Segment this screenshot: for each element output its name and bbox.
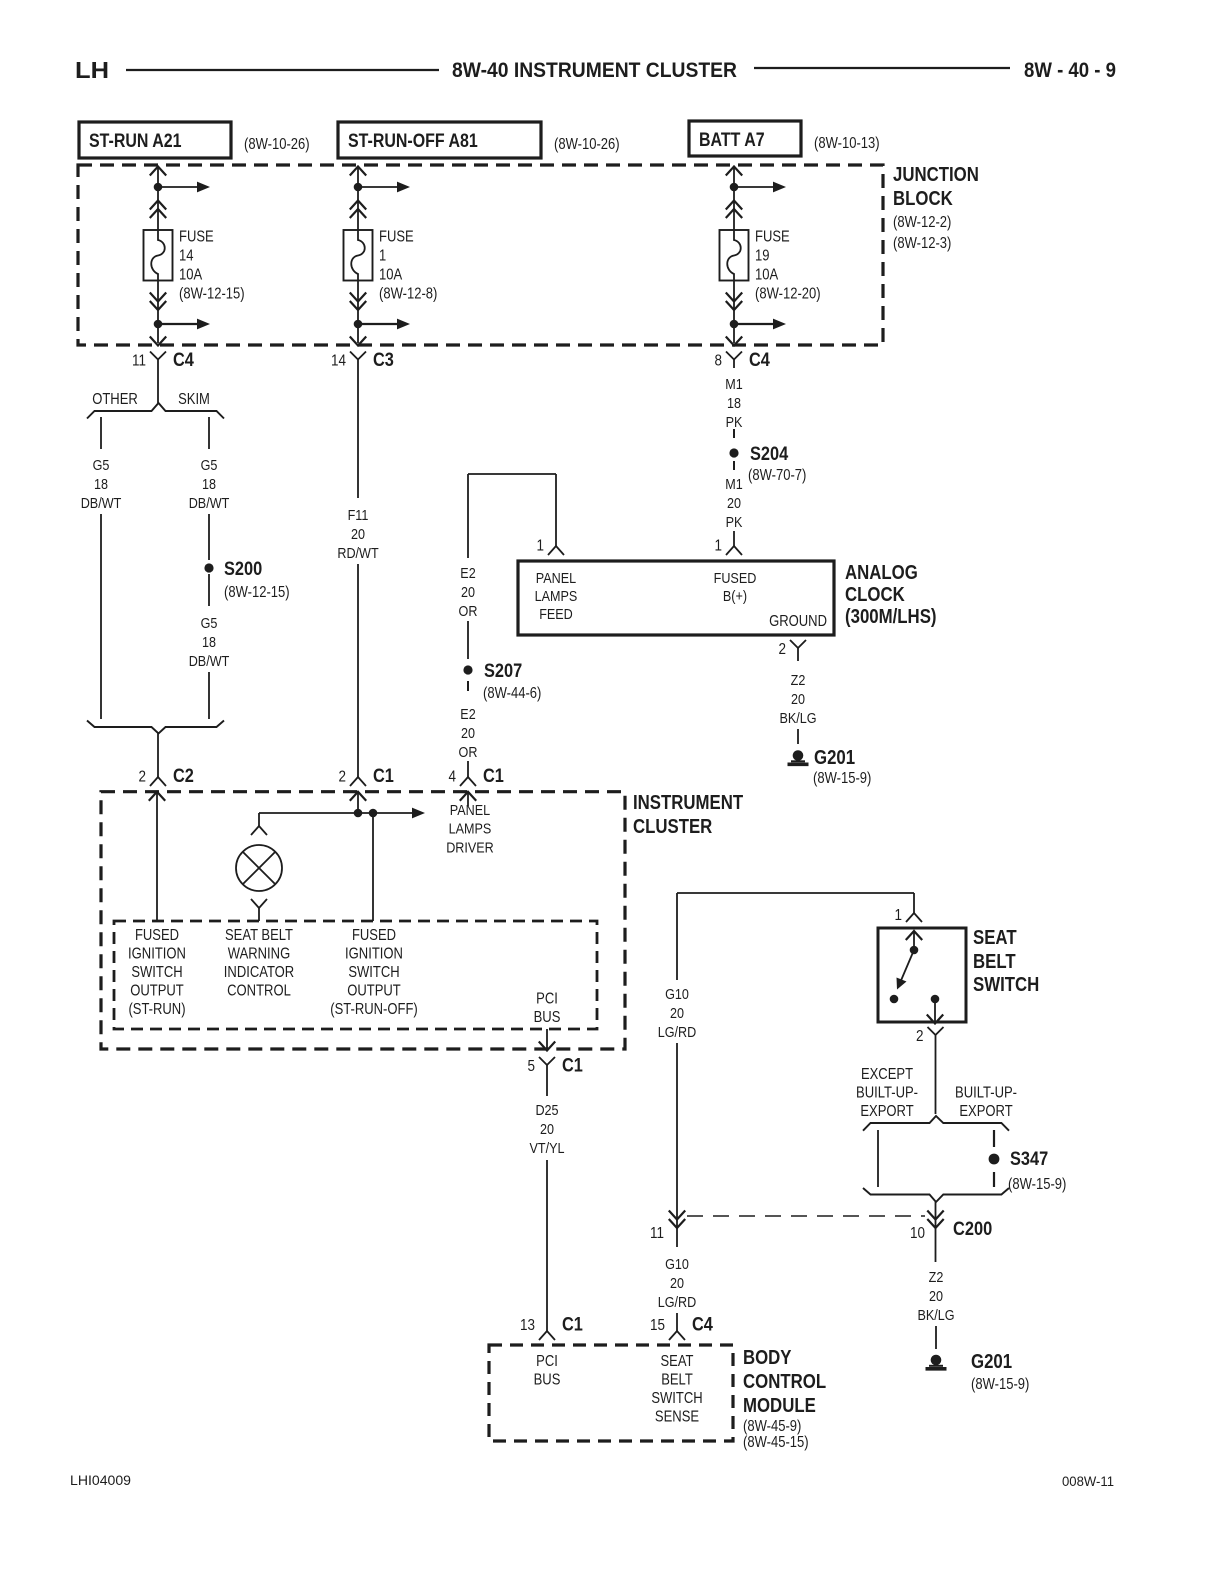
svg-text:DB/WT: DB/WT bbox=[81, 495, 122, 512]
svg-text:BUILT-UP-: BUILT-UP- bbox=[856, 1085, 918, 1102]
svg-text:20: 20 bbox=[461, 584, 475, 601]
svg-text:FEED: FEED bbox=[539, 606, 573, 623]
svg-text:(8W-10-13): (8W-10-13) bbox=[814, 135, 880, 152]
svg-text:C1: C1 bbox=[373, 765, 394, 787]
svg-text:C3: C3 bbox=[373, 349, 394, 371]
svg-text:PANEL: PANEL bbox=[536, 570, 576, 587]
svg-text:(8W-44-6): (8W-44-6) bbox=[483, 685, 541, 702]
svg-text:SWITCH: SWITCH bbox=[131, 964, 182, 981]
svg-text:SEAT: SEAT bbox=[661, 1353, 694, 1370]
svg-text:10A: 10A bbox=[179, 267, 203, 284]
svg-text:VT/YL: VT/YL bbox=[530, 1140, 565, 1157]
svg-text:FUSE: FUSE bbox=[379, 229, 414, 246]
svg-text:BUS: BUS bbox=[534, 1009, 561, 1026]
svg-text:INDICATOR: INDICATOR bbox=[224, 964, 294, 981]
svg-text:2: 2 bbox=[139, 769, 147, 786]
svg-text:FUSE: FUSE bbox=[755, 229, 790, 246]
svg-text:DB/WT: DB/WT bbox=[189, 495, 230, 512]
svg-text:S204: S204 bbox=[750, 443, 788, 465]
svg-text:(8W-10-26): (8W-10-26) bbox=[554, 136, 620, 153]
svg-text:Z2: Z2 bbox=[791, 672, 806, 689]
svg-text:1: 1 bbox=[379, 248, 386, 265]
svg-text:PK: PK bbox=[726, 514, 743, 531]
svg-text:D25: D25 bbox=[535, 1102, 558, 1119]
svg-text:(8W-45-9): (8W-45-9) bbox=[743, 1418, 801, 1435]
svg-text:OUTPUT: OUTPUT bbox=[130, 983, 184, 1000]
svg-text:BELT: BELT bbox=[661, 1372, 693, 1389]
svg-text:CLOCK: CLOCK bbox=[845, 584, 905, 606]
svg-text:G5: G5 bbox=[201, 615, 218, 632]
svg-text:E2: E2 bbox=[460, 565, 475, 582]
svg-text:IGNITION: IGNITION bbox=[128, 946, 186, 963]
svg-text:BLOCK: BLOCK bbox=[893, 188, 953, 210]
svg-text:18: 18 bbox=[202, 634, 216, 651]
svg-text:8W-40 INSTRUMENT CLUSTER: 8W-40 INSTRUMENT CLUSTER bbox=[452, 58, 737, 82]
svg-text:(8W-15-9): (8W-15-9) bbox=[971, 1376, 1029, 1393]
svg-text:FUSED: FUSED bbox=[352, 927, 396, 944]
svg-text:5: 5 bbox=[528, 1058, 536, 1075]
svg-text:BK/LG: BK/LG bbox=[917, 1307, 954, 1324]
svg-text:BODY: BODY bbox=[743, 1347, 792, 1369]
svg-text:SKIM: SKIM bbox=[178, 391, 210, 408]
svg-text:WARNING: WARNING bbox=[228, 946, 290, 963]
svg-text:19: 19 bbox=[755, 248, 770, 265]
svg-text:(8W-15-9): (8W-15-9) bbox=[1008, 1176, 1066, 1193]
svg-text:(8W-12-15): (8W-12-15) bbox=[179, 286, 245, 303]
svg-text:RD/WT: RD/WT bbox=[337, 545, 378, 562]
svg-text:20: 20 bbox=[351, 526, 365, 543]
svg-text:CONTROL: CONTROL bbox=[227, 983, 291, 1000]
svg-text:SWITCH: SWITCH bbox=[651, 1390, 702, 1407]
svg-text:4: 4 bbox=[449, 769, 457, 786]
svg-text:(8W-15-9): (8W-15-9) bbox=[813, 770, 871, 787]
svg-text:(300M/LHS): (300M/LHS) bbox=[845, 606, 937, 628]
svg-text:18: 18 bbox=[94, 476, 108, 493]
svg-text:10A: 10A bbox=[755, 267, 779, 284]
svg-text:(8W-12-20): (8W-12-20) bbox=[755, 286, 821, 303]
svg-text:F11: F11 bbox=[348, 507, 369, 524]
svg-text:(8W-10-26): (8W-10-26) bbox=[244, 136, 310, 153]
svg-text:G5: G5 bbox=[93, 457, 110, 474]
svg-text:Z2: Z2 bbox=[929, 1269, 944, 1286]
svg-text:(8W-12-15): (8W-12-15) bbox=[224, 584, 290, 601]
svg-text:BUS: BUS bbox=[534, 1372, 561, 1389]
svg-text:G10: G10 bbox=[665, 1256, 689, 1273]
svg-text:S347: S347 bbox=[1010, 1148, 1048, 1170]
svg-text:20: 20 bbox=[791, 691, 805, 708]
svg-text:SWITCH: SWITCH bbox=[348, 964, 399, 981]
svg-text:LAMPS: LAMPS bbox=[449, 821, 492, 838]
svg-text:20: 20 bbox=[670, 1275, 684, 1292]
svg-text:ST-RUN A21: ST-RUN A21 bbox=[89, 131, 182, 152]
svg-text:(8W-45-15): (8W-45-15) bbox=[743, 1434, 809, 1451]
svg-text:C4: C4 bbox=[173, 349, 194, 371]
svg-text:G5: G5 bbox=[201, 457, 218, 474]
svg-text:EXCEPT: EXCEPT bbox=[861, 1066, 914, 1083]
svg-text:ST-RUN-OFF A81: ST-RUN-OFF A81 bbox=[348, 131, 478, 152]
svg-text:C1: C1 bbox=[562, 1314, 583, 1336]
svg-text:GROUND: GROUND bbox=[769, 613, 827, 630]
svg-text:13: 13 bbox=[520, 1317, 535, 1334]
svg-text:20: 20 bbox=[461, 725, 475, 742]
svg-text:EXPORT: EXPORT bbox=[860, 1103, 914, 1120]
svg-text:ANALOG: ANALOG bbox=[845, 562, 918, 584]
svg-text:LHI04009: LHI04009 bbox=[70, 1472, 131, 1488]
svg-text:20: 20 bbox=[727, 495, 741, 512]
svg-text:OUTPUT: OUTPUT bbox=[347, 983, 401, 1000]
svg-text:20: 20 bbox=[540, 1121, 554, 1138]
svg-text:1: 1 bbox=[537, 538, 545, 555]
svg-text:15: 15 bbox=[650, 1317, 665, 1334]
svg-text:18: 18 bbox=[727, 395, 741, 412]
svg-text:S207: S207 bbox=[484, 660, 522, 682]
svg-text:FUSED: FUSED bbox=[714, 570, 757, 587]
svg-text:10: 10 bbox=[910, 1225, 925, 1242]
svg-text:S200: S200 bbox=[224, 558, 262, 580]
svg-text:LAMPS: LAMPS bbox=[535, 588, 578, 605]
svg-text:2: 2 bbox=[779, 641, 787, 658]
svg-text:1: 1 bbox=[715, 538, 723, 555]
svg-text:E2: E2 bbox=[460, 706, 475, 723]
svg-text:M1: M1 bbox=[725, 376, 743, 393]
svg-text:EXPORT: EXPORT bbox=[959, 1103, 1013, 1120]
svg-text:PK: PK bbox=[726, 414, 743, 431]
svg-text:SWITCH: SWITCH bbox=[973, 974, 1039, 996]
svg-text:C200: C200 bbox=[953, 1218, 992, 1240]
svg-text:SEAT: SEAT bbox=[973, 927, 1017, 949]
svg-text:10A: 10A bbox=[379, 267, 403, 284]
svg-text:2: 2 bbox=[339, 769, 347, 786]
svg-text:20: 20 bbox=[929, 1288, 943, 1305]
svg-text:G10: G10 bbox=[665, 986, 689, 1003]
svg-text:18: 18 bbox=[202, 476, 216, 493]
svg-text:M1: M1 bbox=[725, 476, 743, 493]
svg-text:FUSE: FUSE bbox=[179, 229, 214, 246]
svg-text:(8W-12-2): (8W-12-2) bbox=[893, 214, 951, 231]
svg-text:OR: OR bbox=[459, 744, 478, 761]
svg-text:LG/RD: LG/RD bbox=[658, 1024, 697, 1041]
svg-text:11: 11 bbox=[132, 353, 146, 370]
svg-text:G201: G201 bbox=[814, 747, 855, 769]
svg-text:PCI: PCI bbox=[536, 991, 558, 1008]
svg-text:(ST-RUN): (ST-RUN) bbox=[128, 1001, 185, 1018]
svg-text:14: 14 bbox=[179, 248, 194, 265]
svg-text:B(+): B(+) bbox=[723, 588, 747, 605]
svg-text:DB/WT: DB/WT bbox=[189, 653, 230, 670]
svg-text:BATT A7: BATT A7 bbox=[699, 130, 765, 151]
svg-text:14: 14 bbox=[331, 353, 346, 370]
svg-text:BELT: BELT bbox=[973, 951, 1016, 973]
svg-text:11: 11 bbox=[650, 1225, 664, 1242]
svg-text:IGNITION: IGNITION bbox=[345, 946, 403, 963]
svg-text:2: 2 bbox=[916, 1028, 924, 1045]
svg-text:OR: OR bbox=[459, 603, 478, 620]
svg-text:C4: C4 bbox=[692, 1314, 713, 1336]
svg-text:(8W-70-7): (8W-70-7) bbox=[748, 467, 806, 484]
svg-text:SEAT BELT: SEAT BELT bbox=[225, 927, 293, 944]
svg-text:1: 1 bbox=[895, 907, 903, 924]
svg-text:OTHER: OTHER bbox=[92, 391, 138, 408]
svg-text:LG/RD: LG/RD bbox=[658, 1294, 697, 1311]
svg-text:BUILT-UP-: BUILT-UP- bbox=[955, 1085, 1017, 1102]
svg-text:C1: C1 bbox=[483, 765, 504, 787]
svg-text:8: 8 bbox=[715, 353, 723, 370]
svg-text:G201: G201 bbox=[971, 1351, 1012, 1373]
svg-text:SENSE: SENSE bbox=[655, 1409, 699, 1426]
svg-text:PCI: PCI bbox=[536, 1353, 558, 1370]
svg-text:CLUSTER: CLUSTER bbox=[633, 816, 713, 838]
svg-text:DRIVER: DRIVER bbox=[446, 839, 494, 856]
svg-text:(ST-RUN-OFF): (ST-RUN-OFF) bbox=[330, 1001, 418, 1018]
svg-text:(8W-12-8): (8W-12-8) bbox=[379, 286, 437, 303]
svg-text:LH: LH bbox=[75, 57, 109, 83]
svg-text:008W-11: 008W-11 bbox=[1062, 1473, 1114, 1489]
svg-text:C2: C2 bbox=[173, 765, 194, 787]
svg-text:20: 20 bbox=[670, 1005, 684, 1022]
svg-text:CONTROL: CONTROL bbox=[743, 1371, 826, 1393]
svg-text:C1: C1 bbox=[562, 1055, 583, 1077]
svg-text:MODULE: MODULE bbox=[743, 1395, 816, 1417]
svg-text:C4: C4 bbox=[749, 349, 770, 371]
svg-text:(8W-12-3): (8W-12-3) bbox=[893, 235, 951, 252]
svg-text:BK/LG: BK/LG bbox=[779, 710, 816, 727]
svg-text:JUNCTION: JUNCTION bbox=[893, 164, 979, 186]
svg-text:8W - 40 - 9: 8W - 40 - 9 bbox=[1024, 58, 1116, 82]
svg-text:INSTRUMENT: INSTRUMENT bbox=[633, 792, 743, 814]
svg-text:PANEL: PANEL bbox=[450, 802, 490, 819]
svg-text:FUSED: FUSED bbox=[135, 927, 179, 944]
